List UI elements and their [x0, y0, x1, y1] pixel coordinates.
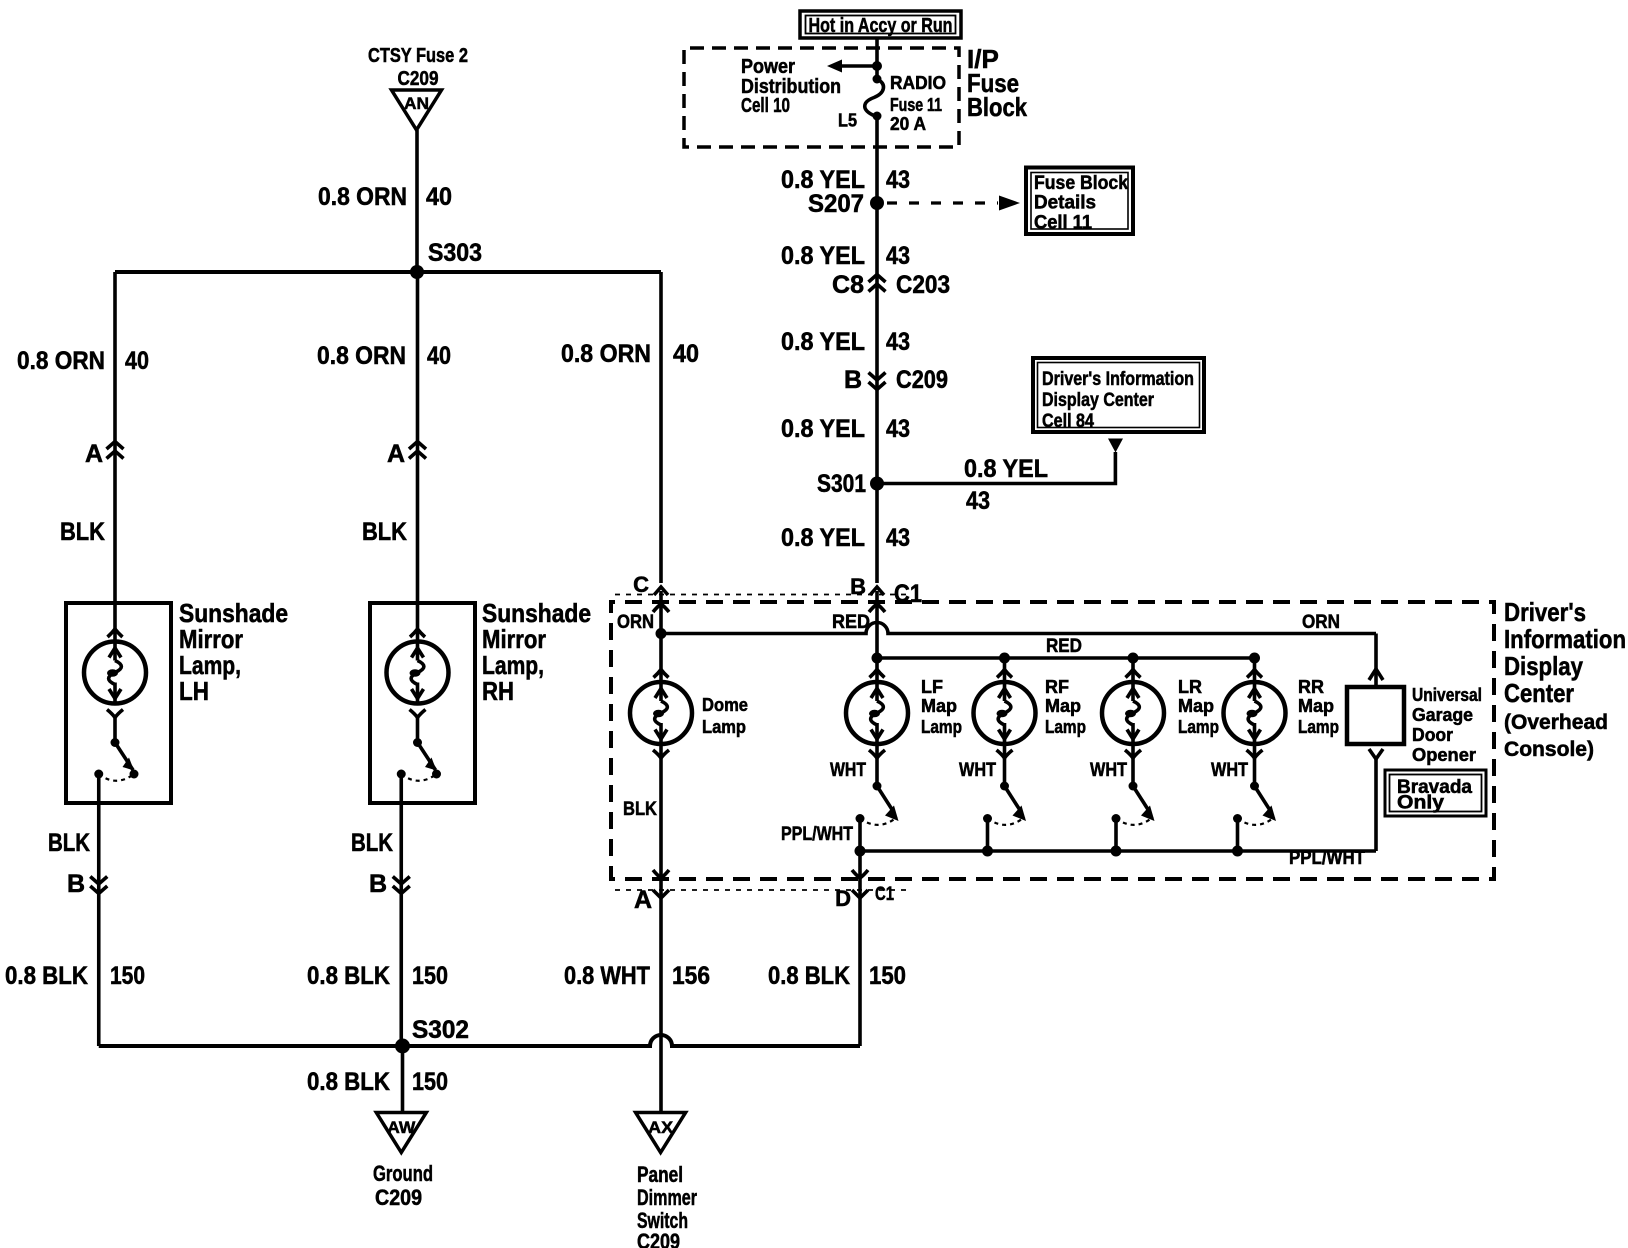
junction RED at LR — [1128, 653, 1139, 664]
svg-text:C1: C1 — [875, 884, 894, 905]
svg-text:(Overhead: (Overhead — [1504, 711, 1608, 734]
svg-text:Driver's Information: Driver's Information — [1042, 369, 1194, 390]
dashed wire S207 to fuse block details — [887, 196, 1020, 211]
label Panel Dimmer Switch C209 — [637, 1162, 697, 1248]
wire S302 to ground triangle — [401, 1046, 405, 1113]
label 0.8 BLK 150 (below S302) — [307, 1068, 448, 1096]
svg-text:43: 43 — [886, 166, 910, 194]
svg-text:RH: RH — [482, 676, 514, 706]
svg-text:40: 40 — [673, 340, 699, 368]
switch LF map lamp — [856, 782, 899, 825]
label Ground C209 — [373, 1161, 433, 1210]
svg-text:Lamp: Lamp — [921, 717, 962, 737]
wire RR lamp to switch — [1253, 744, 1257, 786]
junction S301 — [817, 470, 884, 498]
label Universal Garage Door Opener — [1412, 685, 1482, 765]
wire D exit to S302 bus — [858, 851, 862, 1046]
svg-text:Display: Display — [1504, 651, 1583, 681]
wire arrow to power distribution — [827, 60, 882, 73]
label I/P Fuse Block — [967, 44, 1027, 122]
svg-text:L5: L5 — [838, 111, 857, 131]
wire S301 to DIDC cell 84 with arrow — [877, 439, 1123, 484]
wire fuse to console connector B C1 — [875, 116, 879, 583]
wire RF switch to bus — [986, 818, 990, 851]
connector A (console exit) — [634, 870, 669, 914]
junction S303 — [410, 265, 424, 279]
label 0.8 BLK 150 (D wire) — [768, 962, 906, 990]
svg-text:B: B — [369, 870, 387, 898]
component box Universal Garage Door Opener — [1347, 687, 1404, 744]
connector B (LH) — [67, 870, 107, 898]
wire RF lamp to switch — [1003, 744, 1007, 786]
svg-text:Power: Power — [741, 56, 795, 78]
svg-text:Center: Center — [1504, 678, 1574, 708]
switch LH sunshade — [94, 738, 138, 781]
wire RED bus — [877, 656, 1255, 660]
svg-text:WHT: WHT — [1211, 760, 1248, 781]
svg-text:Lamp: Lamp — [1298, 717, 1339, 737]
svg-text:Opener: Opener — [1412, 745, 1476, 765]
svg-text:0.8 ORN: 0.8 ORN — [17, 347, 105, 375]
svg-text:C209: C209 — [375, 1185, 422, 1210]
connector AX triangle — [636, 1113, 686, 1153]
svg-text:BLK: BLK — [623, 799, 657, 820]
svg-text:150: 150 — [412, 1068, 448, 1096]
svg-text:BLK: BLK — [48, 829, 90, 857]
svg-text:LH: LH — [179, 676, 209, 706]
wire ORN bus with hop over RED wire — [661, 623, 1376, 634]
label 0.8 YEL 43 (S301 branch) — [964, 455, 1048, 515]
ref box Fuse Block Details Cell 11 — [1026, 168, 1133, 235]
svg-text:0.8 ORN: 0.8 ORN — [318, 183, 407, 211]
svg-text:C: C — [633, 572, 649, 597]
svg-text:Map: Map — [1298, 696, 1334, 716]
svg-text:WHT: WHT — [1090, 760, 1127, 781]
svg-text:43: 43 — [886, 524, 910, 552]
title Driver's Information Display Center (Overhead Console) — [1504, 597, 1626, 761]
connector chevron inside B — [869, 604, 885, 612]
wire LF lamp to switch — [875, 744, 879, 786]
svg-text:0.8 ORN: 0.8 ORN — [317, 342, 406, 370]
switch LR map lamp — [1112, 782, 1155, 825]
wire dome lamp A to panel dimmer switch — [659, 877, 663, 1113]
svg-text:0.8 YEL: 0.8 YEL — [781, 415, 865, 443]
connector B C209 — [844, 366, 948, 394]
lamp LF Map Lamp — [846, 670, 908, 759]
svg-text:40: 40 — [426, 183, 452, 211]
svg-text:Garage: Garage — [1412, 705, 1473, 725]
label 0.8 ORN 40 (top) — [318, 183, 452, 211]
svg-text:Door: Door — [1412, 725, 1453, 745]
svg-text:ORN: ORN — [1302, 612, 1340, 633]
svg-text:Only: Only — [1397, 793, 1444, 814]
junction PPL/WHT at RF — [982, 846, 993, 857]
svg-text:150: 150 — [110, 962, 145, 990]
connector C1 dashed line (top) — [615, 594, 910, 596]
svg-text:150: 150 — [412, 962, 448, 990]
console dashed box Driver's Information Display Center — [611, 602, 1494, 879]
svg-text:D: D — [835, 886, 851, 911]
lamp RR Map Lamp — [1224, 670, 1286, 759]
svg-text:Cell 11: Cell 11 — [1034, 213, 1092, 234]
svg-text:S303: S303 — [428, 239, 482, 267]
svg-text:Dimmer: Dimmer — [637, 1185, 697, 1210]
wire ORN down to garage door opener — [1369, 634, 1383, 688]
svg-text:Lamp: Lamp — [702, 717, 746, 737]
svg-text:0.8 BLK: 0.8 BLK — [5, 962, 88, 990]
svg-text:43: 43 — [886, 242, 910, 270]
svg-text:C203: C203 — [896, 271, 950, 299]
wire LR lamp to switch — [1131, 744, 1135, 786]
ref box Bravada Only — [1385, 770, 1486, 816]
svg-text:WHT: WHT — [959, 760, 996, 781]
svg-text:C209: C209 — [398, 68, 439, 90]
svg-text:40: 40 — [125, 347, 149, 375]
junction S207 — [808, 190, 884, 218]
label RF Map Lamp — [1045, 677, 1086, 737]
junction RED at RF — [999, 653, 1010, 664]
junction PPL/WHT at RR — [1232, 846, 1243, 857]
wire RR feed — [1253, 658, 1257, 682]
label 0.8 ORN 40 (RH) — [317, 342, 451, 370]
wire LR feed — [1131, 658, 1135, 682]
fuse RADIO Fuse 11 20 A — [865, 75, 884, 121]
wire S303 bus — [115, 270, 661, 274]
label Sunshade Mirror Lamp, RH — [482, 598, 591, 706]
lamp Dome Lamp — [630, 670, 692, 759]
junction PPL/WHT at LR — [1111, 846, 1122, 857]
switch RH sunshade — [397, 738, 441, 781]
svg-text:A: A — [387, 440, 405, 468]
junction ORN dot — [656, 628, 667, 639]
I/P fuse block dashed box — [684, 48, 959, 147]
label 0.8 BLK 150 (RH) — [307, 962, 448, 990]
svg-text:B: B — [844, 366, 862, 394]
svg-text:RED: RED — [1046, 636, 1082, 657]
label 0.8 YEL 43 (1) — [781, 166, 910, 194]
wire S302 ground bus with hop over panel dimmer wire — [99, 1035, 860, 1046]
wire 0.8 ORN to LH lamp — [113, 272, 117, 641]
svg-text:AW: AW — [387, 1118, 416, 1137]
svg-text:Universal: Universal — [1412, 685, 1482, 705]
svg-text:Lamp: Lamp — [1178, 717, 1219, 737]
label 0.8 ORN 40 (right) — [561, 340, 699, 368]
junction RED at RR — [1249, 653, 1260, 664]
label 0.8 YEL 43 (3) — [781, 328, 910, 356]
connector D (console exit) — [835, 870, 894, 911]
label 0.8 YEL 43 (5) — [781, 524, 910, 552]
wire hot feed to fuse — [875, 38, 879, 79]
svg-text:RED: RED — [832, 612, 870, 633]
connector B (RH) — [369, 870, 410, 898]
wire RH switch to S302 — [399, 774, 403, 1046]
svg-text:LF: LF — [921, 677, 943, 697]
wire garage door opener to PPL/WHT bus — [1369, 749, 1383, 851]
connector C (console entry) — [633, 572, 668, 597]
svg-text:C209: C209 — [637, 1229, 680, 1248]
lamp LR Map Lamp — [1102, 670, 1164, 759]
label RR Map Lamp — [1298, 677, 1339, 737]
wire LF switch to PPL/WHT bus — [858, 818, 862, 851]
connector chevron inside C — [653, 604, 669, 612]
svg-text:Cell 84: Cell 84 — [1042, 411, 1094, 432]
svg-text:A: A — [85, 440, 103, 468]
svg-text:CTSY Fuse 2: CTSY Fuse 2 — [368, 45, 468, 67]
svg-text:Fuse 11: Fuse 11 — [890, 95, 942, 115]
component box Sunshade Mirror Lamp RH — [370, 603, 475, 803]
wire B C1 into console to LF map lamp — [875, 591, 879, 682]
svg-text:BLK: BLK — [60, 518, 105, 546]
lamp RF Map Lamp — [974, 670, 1036, 759]
svg-text:C8: C8 — [832, 271, 864, 299]
svg-text:PPL/WHT: PPL/WHT — [781, 824, 853, 845]
svg-text:Driver's: Driver's — [1504, 597, 1586, 627]
svg-text:0.8 BLK: 0.8 BLK — [307, 962, 390, 990]
svg-text:AN: AN — [404, 94, 429, 113]
svg-text:Dome: Dome — [702, 695, 748, 715]
svg-text:150: 150 — [869, 962, 906, 990]
connector A (LH) — [85, 440, 124, 468]
svg-text:0.8 YEL: 0.8 YEL — [781, 242, 865, 270]
label 0.8 YEL 43 (4) — [781, 415, 910, 443]
svg-text:Display Center: Display Center — [1042, 390, 1155, 411]
svg-text:C209: C209 — [896, 366, 948, 394]
svg-text:S301: S301 — [817, 470, 866, 498]
svg-text:B: B — [67, 870, 85, 898]
wire LH switch to S302 bus — [97, 774, 101, 1046]
svg-text:0.8 BLK: 0.8 BLK — [768, 962, 850, 990]
switch RF map lamp — [983, 782, 1026, 825]
svg-text:0.8 YEL: 0.8 YEL — [964, 455, 1048, 483]
label Power Distribution Cell 10 — [741, 56, 841, 117]
svg-text:0.8 WHT: 0.8 WHT — [564, 962, 650, 990]
label LR Map Lamp — [1178, 677, 1219, 737]
svg-text:BLK: BLK — [362, 518, 407, 546]
svg-text:0.8 BLK: 0.8 BLK — [307, 1068, 390, 1096]
wire 0.8 ORN to RH lamp — [416, 272, 420, 641]
svg-text:20 A: 20 A — [890, 114, 926, 134]
svg-text:ORN: ORN — [617, 612, 654, 633]
wire dome lamp to connector A — [659, 744, 663, 877]
lamp LH sunshade mirror lamp — [84, 629, 146, 718]
label RADIO Fuse 11 20 A — [890, 73, 946, 134]
svg-text:Map: Map — [921, 696, 957, 716]
svg-text:WHT: WHT — [830, 760, 866, 781]
svg-text:43: 43 — [886, 415, 910, 443]
svg-text:0.8 YEL: 0.8 YEL — [781, 328, 865, 356]
svg-text:PPL/WHT: PPL/WHT — [1289, 848, 1365, 869]
svg-text:43: 43 — [966, 487, 990, 515]
switch RR map lamp — [1233, 782, 1276, 825]
svg-text:A: A — [634, 886, 652, 914]
junction RED at LF — [872, 653, 883, 664]
junction PPL/WHT at D — [855, 846, 866, 857]
lamp RH sunshade mirror lamp — [387, 629, 449, 718]
svg-text:0.8 YEL: 0.8 YEL — [781, 524, 865, 552]
connector AN triangle — [392, 90, 442, 130]
svg-text:RADIO: RADIO — [890, 73, 946, 93]
wire LR switch to bus — [1114, 818, 1118, 851]
svg-text:BLK: BLK — [351, 829, 393, 857]
svg-text:40: 40 — [427, 342, 451, 370]
svg-text:S207: S207 — [808, 190, 864, 218]
svg-text:Map: Map — [1045, 696, 1081, 716]
svg-text:S302: S302 — [412, 1016, 469, 1044]
component box Sunshade Mirror Lamp LH — [66, 603, 171, 803]
power label box Hot in Accy or Run — [800, 11, 961, 38]
wire RR switch to bus — [1236, 818, 1240, 851]
svg-text:Details: Details — [1034, 193, 1096, 214]
svg-text:43: 43 — [886, 328, 910, 356]
wire RH lamp to switch — [416, 715, 420, 743]
svg-text:Fuse Block: Fuse Block — [1034, 173, 1128, 194]
svg-text:Block: Block — [967, 92, 1027, 122]
svg-text:LR: LR — [1178, 677, 1202, 697]
label 0.8 WHT 156 — [564, 962, 710, 990]
svg-text:156: 156 — [672, 962, 710, 990]
wire AN to S303 — [415, 130, 419, 272]
ground triangle AW — [376, 1113, 426, 1153]
label Sunshade Mirror Lamp, LH — [179, 598, 288, 706]
svg-text:Hot in Accy or Run: Hot in Accy or Run — [809, 15, 953, 37]
svg-text:Cell 10: Cell 10 — [741, 95, 790, 117]
svg-text:Ground: Ground — [373, 1161, 433, 1186]
label 0.8 ORN 40 (LH) — [17, 347, 149, 375]
wire C to dome lamp — [659, 591, 663, 682]
svg-text:0.8 ORN: 0.8 ORN — [561, 340, 651, 368]
wire LH lamp to switch — [113, 715, 117, 743]
svg-text:Lamp: Lamp — [1045, 717, 1086, 737]
wire PPL/WHT bus — [860, 849, 1376, 853]
connector C8 C203 — [832, 271, 950, 299]
wire RF feed — [1003, 658, 1007, 682]
label LF Map Lamp — [921, 677, 962, 737]
svg-text:Panel: Panel — [637, 1162, 683, 1187]
label 0.8 BLK 150 (LH) — [5, 962, 145, 990]
ref box Driver's Information Display Center Cell 84 — [1033, 358, 1204, 432]
connector B C1 (console entry) — [850, 574, 922, 608]
svg-text:RR: RR — [1298, 677, 1324, 697]
connector C1 dashed line (bottom) — [615, 889, 910, 891]
svg-text:Information: Information — [1504, 624, 1626, 654]
svg-text:Console): Console) — [1504, 738, 1594, 761]
svg-text:RF: RF — [1045, 677, 1069, 697]
label Dome Lamp — [702, 695, 748, 737]
wire 0.8 ORN to console connector C — [659, 272, 663, 583]
svg-text:Map: Map — [1178, 696, 1214, 716]
connector A (RH) — [387, 440, 426, 468]
svg-text:AX: AX — [648, 1118, 674, 1137]
junction S302 — [395, 1039, 410, 1054]
label 0.8 YEL 43 (2) — [781, 242, 910, 270]
